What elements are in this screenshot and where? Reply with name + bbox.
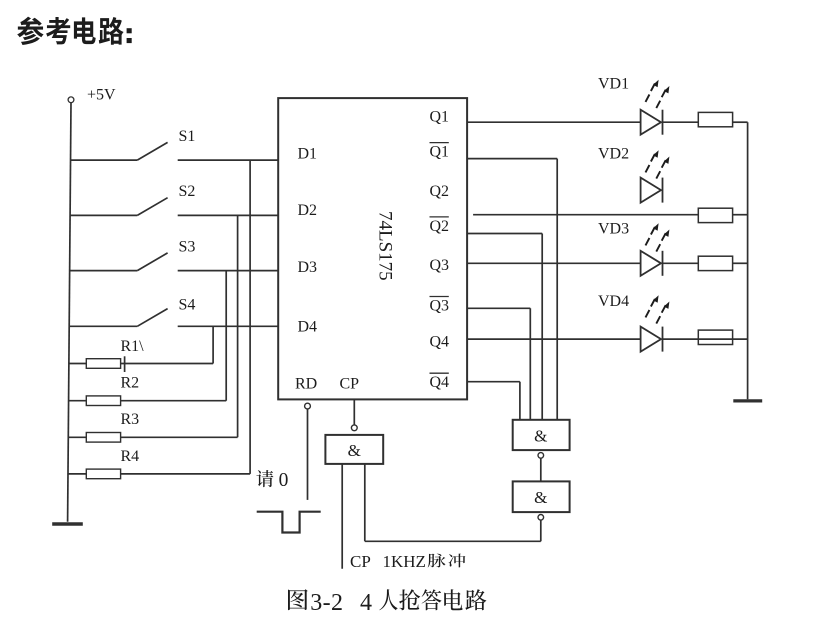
svg-text:R1\: R1\ bbox=[121, 338, 145, 355]
svg-text:Q2: Q2 bbox=[430, 183, 450, 200]
svg-text:R3: R3 bbox=[121, 411, 140, 428]
svg-text:0: 0 bbox=[279, 470, 289, 491]
svg-text:Q4: Q4 bbox=[430, 334, 450, 351]
svg-text:3-2: 3-2 bbox=[310, 590, 343, 616]
svg-text:Q2: Q2 bbox=[430, 218, 450, 235]
svg-text:Q1: Q1 bbox=[430, 108, 450, 125]
svg-text:Q3: Q3 bbox=[430, 298, 450, 315]
svg-text:S4: S4 bbox=[179, 297, 196, 314]
svg-text:D3: D3 bbox=[298, 259, 318, 276]
svg-text:74LS175: 74LS175 bbox=[375, 211, 396, 281]
svg-text:VD2: VD2 bbox=[598, 146, 629, 163]
svg-text:RD: RD bbox=[295, 375, 317, 392]
svg-text:CP: CP bbox=[350, 552, 371, 571]
svg-text:Q3: Q3 bbox=[430, 257, 450, 274]
svg-text:D1: D1 bbox=[298, 145, 318, 162]
svg-text:VD1: VD1 bbox=[598, 76, 629, 93]
svg-text:VD3: VD3 bbox=[598, 221, 629, 238]
svg-text:4: 4 bbox=[360, 590, 372, 616]
svg-text:1KHZ: 1KHZ bbox=[383, 552, 426, 571]
svg-text:&: & bbox=[348, 441, 361, 460]
svg-text:D4: D4 bbox=[298, 319, 318, 336]
svg-text:S2: S2 bbox=[179, 183, 196, 200]
svg-text:+5V: +5V bbox=[87, 87, 116, 104]
svg-text:Q1: Q1 bbox=[430, 144, 450, 161]
svg-text:Q4: Q4 bbox=[430, 374, 450, 391]
svg-text:S3: S3 bbox=[179, 239, 196, 256]
svg-text:R2: R2 bbox=[121, 375, 140, 392]
svg-text:&: & bbox=[534, 427, 547, 446]
svg-text:CP: CP bbox=[340, 375, 360, 392]
svg-text:S1: S1 bbox=[179, 128, 196, 145]
svg-text:D2: D2 bbox=[298, 202, 318, 219]
svg-text:VD4: VD4 bbox=[598, 293, 629, 310]
svg-text:&: & bbox=[534, 488, 547, 507]
svg-text:R4: R4 bbox=[121, 448, 140, 465]
